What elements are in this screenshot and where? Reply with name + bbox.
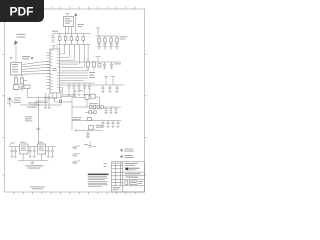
- resistor R7: [14, 85, 20, 90]
- resistor R17: [89, 111, 92, 114]
- PDF badge: [0, 0, 44, 22]
- capacitor C16: [107, 121, 110, 128]
- wire bundle J1 to U1: [22, 61, 50, 74]
- net label N12: [96, 125, 104, 128]
- capacitor C24: [86, 130, 89, 138]
- capacitor C3: [70, 34, 72, 45]
- IC U4a: [85, 94, 89, 99]
- wire W2a: [36, 101, 48, 105]
- capacitor C20: [29, 147, 32, 158]
- wire W3: [37, 136, 39, 147]
- notes block: [88, 174, 109, 187]
- ground G1: [14, 89, 18, 91]
- label TP4: [77, 152, 80, 155]
- capacitor C0: [52, 34, 55, 43]
- wire W4: [72, 97, 121, 107]
- bus wire BW3: [96, 61, 122, 63]
- capacitor C13: [110, 107, 113, 114]
- bus wire BW1: [57, 34, 91, 45]
- rev table cell text: [112, 162, 122, 165]
- wires U1 right staircase: [60, 45, 89, 71]
- label D1: [14, 98, 21, 103]
- capacitor C29: [88, 83, 91, 95]
- wire W2: [20, 98, 61, 137]
- capacitor C7: [103, 62, 106, 69]
- doc title text: [125, 173, 140, 174]
- capacitor C28: [83, 83, 86, 95]
- label A1: [125, 149, 135, 152]
- logo mark: [125, 168, 128, 171]
- capacitor C21: [33, 147, 36, 158]
- capacitor C14: [115, 107, 118, 114]
- capacitor C11: [116, 85, 119, 92]
- capacitor C12: [105, 107, 108, 114]
- resistor R5: [15, 74, 17, 88]
- capacitor C17: [112, 121, 115, 128]
- resistor R19: [88, 117, 92, 120]
- capacitor C15: [102, 121, 105, 128]
- net label N11: [89, 102, 98, 105]
- capacitor C27: [78, 83, 81, 95]
- capacitor C2: [65, 34, 67, 45]
- net label N13: [104, 163, 107, 167]
- LED D1: [7, 97, 14, 108]
- regulator circuit bus: [10, 145, 56, 161]
- resistor R18: [94, 111, 97, 114]
- power flag PF6: [73, 91, 77, 96]
- label TP5: [77, 160, 80, 163]
- capacitor C4: [76, 34, 78, 45]
- net label N7: [114, 63, 121, 66]
- ground G2: [20, 89, 24, 91]
- capacitor CX2: [48, 93, 51, 109]
- resistor R4: [115, 36, 119, 49]
- wire net SCL: [60, 84, 96, 86]
- sheet boxes: [125, 181, 128, 184]
- U1 left pins: [47, 53, 51, 89]
- net label VCC1: [52, 30, 58, 33]
- capacitor CX1: [44, 93, 47, 109]
- power flag PF3: [96, 57, 101, 63]
- resistor R16: [93, 61, 95, 72]
- MCU U1: [50, 49, 60, 93]
- capacitor C10: [109, 85, 112, 92]
- bus wire BW4: [96, 84, 125, 86]
- power flag PF4: [104, 77, 108, 86]
- wires U1 right mid: [60, 73, 89, 81]
- test point TP4: [72, 154, 77, 157]
- test point TP3: [72, 146, 77, 149]
- svg-text:PDF: PDF: [10, 5, 34, 19]
- capacitor C22: [47, 147, 50, 158]
- capacitor C19: [14, 147, 17, 158]
- net label N1: [16, 34, 25, 38]
- logo text: [129, 168, 140, 171]
- test point TP1: [75, 129, 78, 132]
- connector J1: [11, 63, 22, 76]
- resistor R10: [90, 106, 92, 109]
- wire corner W7: [60, 88, 77, 96]
- resistor R8: [24, 85, 30, 89]
- resistor R11: [93, 106, 95, 109]
- wire corner W8: [60, 90, 77, 97]
- title block header text: [125, 163, 138, 166]
- net label N6: [120, 37, 128, 40]
- resistor R3: [109, 36, 113, 49]
- wire W1: [19, 81, 61, 98]
- resistor R6: [21, 74, 23, 88]
- power flag PF1: [14, 41, 17, 63]
- ground G3: [23, 154, 41, 165]
- annotation arrow A2: [120, 155, 124, 158]
- net label N3: [27, 103, 37, 108]
- label U3 designator: [11, 142, 44, 144]
- power flag PF2: [96, 28, 101, 36]
- crystal Y1: [53, 93, 57, 102]
- regulator U6: [38, 144, 46, 154]
- cap bus BW6: [60, 82, 96, 84]
- caption text 2: [30, 187, 45, 190]
- capacitor C23: [51, 147, 54, 158]
- test point TP2: [88, 142, 93, 148]
- net label N2: [10, 56, 33, 59]
- capacitor C25: [68, 83, 71, 95]
- capacitor C9: [102, 85, 105, 92]
- wire W5: [72, 120, 121, 122]
- power flag PF5: [111, 77, 115, 86]
- wire W4b: [85, 112, 96, 114]
- resistor R9: [98, 64, 101, 68]
- wire W6: [76, 129, 103, 131]
- capacitor C26: [73, 83, 76, 95]
- resistor R15: [87, 58, 89, 71]
- power flag PF7: [74, 13, 77, 33]
- capacitor C6: [36, 125, 40, 136]
- bus wire BW2: [96, 35, 119, 37]
- resistor R14: [89, 126, 94, 130]
- drawing frame: [2, 7, 146, 195]
- net label N4: [25, 117, 33, 122]
- regulator U3: [20, 144, 28, 154]
- resistor R1: [97, 36, 101, 49]
- wire bus left ext: [53, 33, 57, 35]
- doc subtitle text: [126, 177, 139, 178]
- capacitor C18: [11, 147, 14, 158]
- label A2: [125, 155, 135, 158]
- capacitor C1: [59, 34, 61, 45]
- resistor R2: [103, 36, 107, 49]
- capacitor C8: [110, 62, 113, 69]
- bus wire BW5: [55, 98, 86, 131]
- test point TP5: [72, 161, 77, 164]
- U1 top pins: [52, 46, 58, 50]
- net label N5b: [78, 24, 85, 27]
- net label N9: [73, 117, 83, 120]
- IC U4b: [90, 94, 95, 98]
- annotation arrow A1: [120, 149, 124, 152]
- label TP3: [77, 145, 80, 148]
- resistor R13: [101, 106, 103, 109]
- IC U2: [63, 16, 73, 26]
- resistor R12: [97, 106, 99, 109]
- caption text: [25, 165, 43, 168]
- U2 pins: [65, 14, 71, 34]
- title block: [112, 162, 145, 192]
- net stubs labels: [89, 72, 95, 78]
- capacitor C17b: [117, 121, 120, 128]
- net label N10: [78, 90, 83, 93]
- wire net SDA: [60, 61, 96, 63]
- capacitor C5: [82, 34, 84, 45]
- label TP2: [84, 144, 95, 147]
